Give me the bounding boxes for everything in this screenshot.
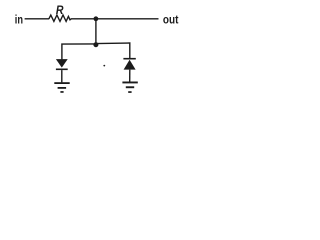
- svg-text:in: in: [15, 12, 23, 26]
- diode D2 (right, cathode up): [123, 58, 135, 70]
- wire node down to lower junction: [95, 19, 97, 45]
- wire right diode to ground: [129, 70, 131, 82]
- wire junction to right diode: [96, 43, 130, 58]
- resistor R: [49, 15, 71, 21]
- diode D1 (left, anode up): [56, 59, 68, 70]
- wire in to resistor: [25, 18, 50, 20]
- wire junction to left diode: [62, 44, 96, 60]
- ground (left): [54, 82, 69, 93]
- svg-text:R: R: [56, 3, 64, 17]
- ground (right): [122, 82, 137, 93]
- svg-text:out: out: [163, 13, 179, 27]
- wire left diode to ground: [61, 70, 63, 82]
- node lower junction: [93, 42, 98, 47]
- node junction on top wire: [94, 16, 99, 21]
- wire resistor to out: [71, 18, 159, 20]
